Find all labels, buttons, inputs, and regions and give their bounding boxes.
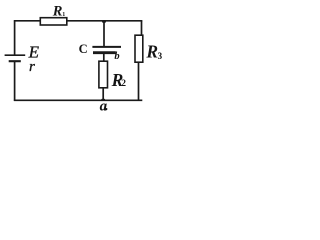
svg-text:3: 3 [158, 51, 163, 61]
svg-text:r: r [29, 59, 35, 75]
battery E long plate [5, 54, 26, 56]
wire left lower [14, 62, 16, 101]
svg-text:R: R [52, 4, 63, 20]
capacitor C top plate [92, 46, 121, 48]
svg-text:C: C [79, 42, 88, 56]
wire right upper [141, 20, 143, 36]
wire left upper [14, 20, 16, 54]
resistor R3 box [135, 35, 143, 62]
svg-text:.: . [105, 98, 108, 113]
junction top [102, 21, 106, 23]
resistor R2 box [99, 61, 108, 88]
svg-text:b: b [114, 51, 119, 62]
wire middle branch mid [103, 54, 105, 61]
capacitor C bottom plate [93, 51, 116, 54]
wire right lower [138, 62, 140, 100]
wire middle branch upper [103, 21, 105, 47]
wire middle branch lower [102, 88, 104, 101]
resistor R1 box [40, 18, 67, 25]
battery E short plate [9, 60, 21, 62]
svg-text:1: 1 [62, 12, 65, 18]
svg-text:2: 2 [121, 79, 126, 89]
wire bottom [14, 99, 142, 101]
junction bottom [101, 99, 105, 101]
svg-text:R: R [145, 42, 158, 62]
wire top [14, 20, 142, 22]
